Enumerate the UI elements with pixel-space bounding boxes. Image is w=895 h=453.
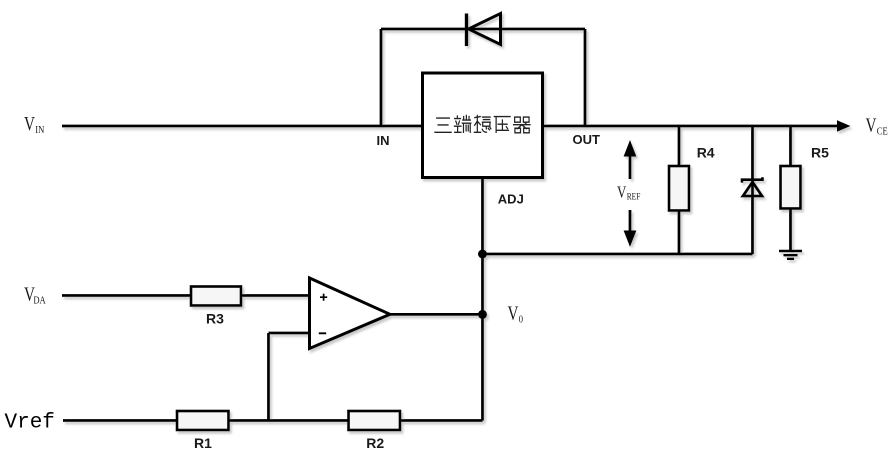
- label V0: [508, 302, 524, 326]
- svg-text:R2: R2: [366, 435, 384, 451]
- arrowhead VCE: [837, 120, 851, 132]
- svg-text:0: 0: [519, 313, 523, 325]
- svg-text:OUT: OUT: [573, 132, 601, 147]
- label R4: [697, 145, 715, 161]
- svg-text:R4: R4: [697, 145, 715, 161]
- wire R1 to R2: [229, 419, 349, 422]
- svg-text:IN: IN: [377, 133, 390, 148]
- wire R2 to V0 riser: [400, 419, 483, 422]
- resistor R4: [669, 126, 689, 254]
- label R2: [366, 435, 384, 451]
- label VCE: [866, 114, 888, 138]
- resistor R3: [191, 287, 241, 306]
- svg-text:R1: R1: [194, 435, 212, 451]
- svg-text:V: V: [24, 112, 35, 134]
- wire op-amp minus input: [269, 332, 310, 335]
- svg-text:CE: CE: [877, 125, 888, 137]
- svg-text:R5: R5: [811, 145, 829, 161]
- svg-text:V: V: [508, 302, 519, 324]
- svg-text:ADJ: ADJ: [498, 191, 524, 206]
- svg-text:Vref: Vref: [5, 412, 55, 435]
- resistor R1: [177, 411, 229, 430]
- diode D1: [467, 14, 501, 47]
- svg-text:R3: R3: [206, 310, 224, 326]
- regulator U1 box: [423, 73, 543, 178]
- wire ADJ vertical: [481, 178, 484, 255]
- svg-text:DA: DA: [33, 294, 46, 306]
- regulator U1 label 三端稳压器: [435, 116, 530, 133]
- pin label ADJ: [498, 191, 524, 206]
- resistor R2: [349, 411, 401, 430]
- svg-text:V: V: [866, 114, 877, 136]
- wire node to V0 and down to R2: [481, 254, 484, 421]
- wire op-amp output to V0 node: [390, 313, 483, 316]
- wire ADJ node to zener bottom: [483, 253, 753, 256]
- label Vref: [5, 412, 55, 435]
- wire Vref to R1: [63, 419, 177, 422]
- label R3: [206, 310, 224, 326]
- wire main input VIN to regulator IN: [62, 125, 423, 128]
- zener diode D2: [742, 126, 763, 254]
- VREF measurement arrow up: [624, 140, 637, 179]
- label VIN: [24, 112, 44, 136]
- label R1: [194, 435, 212, 451]
- node ADJ junction: [478, 250, 487, 259]
- label VREF: [617, 184, 641, 202]
- label VDA: [24, 283, 47, 307]
- wire feedback left vertical: [380, 29, 383, 126]
- pin label OUT: [573, 132, 601, 147]
- node V0: [478, 310, 487, 319]
- label R5: [811, 145, 829, 161]
- pin label IN: [377, 133, 390, 148]
- wire R3 to op-amp plus input: [241, 294, 310, 297]
- wire VDA to R3: [62, 294, 191, 297]
- VREF measurement arrow down: [624, 210, 637, 247]
- wire feedback top horizontal: [381, 28, 585, 31]
- wire feedback right vertical: [584, 29, 587, 126]
- op-amp U2: [310, 278, 391, 349]
- svg-text:V: V: [617, 184, 627, 202]
- wire minus riser to bottom line: [267, 333, 270, 421]
- svg-text:IN: IN: [35, 124, 44, 136]
- resistor R5: [781, 126, 801, 251]
- ground: [779, 251, 802, 259]
- wire regulator OUT to VCE arrow: [543, 125, 839, 128]
- svg-text:REF: REF: [627, 191, 641, 202]
